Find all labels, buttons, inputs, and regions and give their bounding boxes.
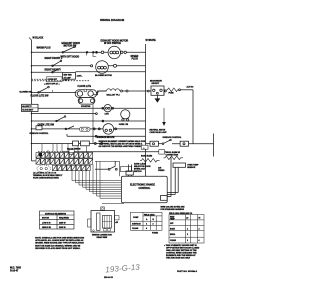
svg-text:2: 2 [199,228,200,230]
lamp surface ind [103,124,114,135]
clock box [22,104,39,111]
svg-text:SURFACE CONTROL: SURFACE CONTROL [30,132,50,135]
svg-text:CASE VALID LGHT: CASE VALID LGHT [150,131,168,134]
svg-text:SECURED IN PLACE AWAY FROM HOT: SECURED IN PLACE AWAY FROM HOT AREAS. [35,247,81,250]
vertical drops right [171,157,178,197]
svg-text:1250 W: 1250 W [59,222,66,224]
terminal block grid [36,153,93,171]
switch S2 [52,65,54,67]
svg-text:2100 W: 2100 W [59,227,66,229]
svg-text:CLEAN: CLEAN [170,239,177,242]
wire row lite [32,107,146,109]
svg-text:BLOWER SW: BLOWER SW [20,92,32,94]
svg-text:W OFF SWITCH: W OFF SWITCH [104,43,121,45]
svg-text:SURFACE ELEMENT CURRENT RATING: SURFACE ELEMENT CURRENT RATING VALID FOR [99,140,146,143]
harness ribbon [72,161,124,203]
junction dot [96,51,98,53]
svg-text:OVEN LTE: OVEN LTE [119,124,129,126]
svg-text:REAR VIEW: REAR VIEW [97,236,108,239]
svg-text:+D47+: +D47+ [77,75,84,78]
svg-text:MIN TMR: MIN TMR [64,75,73,77]
svg-text:WARM PLUS: WARM PLUS [37,47,52,50]
svg-text:HIGH 8 IN: HIGH 8 IN [42,227,51,229]
svg-text:PLUG CONN SURFACE UNITS: PLUG CONN SURFACE UNITS [33,177,60,180]
ground [156,95,158,99]
svg-text:FIELD LEAD: FIELD LEAD [144,213,155,216]
svg-text:RECEPT: RECEPT [152,83,161,85]
wire vertical feeder [92,104,94,143]
svg-text:WITH OFT HOOD: WITH OFT HOOD [61,56,80,58]
svg-text:SURFACE ELEMENTS: SURFACE ELEMENTS [45,212,67,215]
wire dashed row oven interlock [32,78,47,80]
svg-text:R-10-47: R-10-47 [10,269,19,272]
wire to neutral [104,51,146,53]
tiny labels under grid [33,172,63,180]
wire row oven lite [32,120,146,122]
svg-text:1: 1 [187,228,188,230]
wire jog up to receptacle level [94,91,107,95]
plug oval [37,165,51,172]
svg-text:REQUIRED: REQUIRED [59,218,70,220]
wire neutral row [67,134,146,136]
svg-text:FUSE: FUSE [169,93,175,95]
door interlock switch [95,168,108,170]
ballast coil [107,89,120,91]
svg-text:EXHAUST HOOD: EXHAUST HOOD [62,42,81,45]
svg-text:CONTROL: CONTROL [139,187,151,190]
timer box [63,73,76,80]
svg-text:NOTE: SYMBOLS ARE FOR USE WHEN: NOTE: SYMBOLS ARE FOR USE WHEN SERVICING [35,237,84,240]
drops to terminal block [42,144,87,163]
partial wire row [32,113,96,115]
svg-text:MOTOR: MOTOR [42,218,50,220]
left table surface elements [40,211,75,229]
svg-text:1: 1 [146,224,147,226]
right edge stub [213,134,215,157]
svg-text:SHOWN. WIRE GAUGE AND TYPE OF: SHOWN. WIRE GAUGE AND TYPE OF INSULATION [35,242,84,245]
svg-text:W BLACK: W BLACK [33,37,44,40]
lamp LITE [104,105,111,112]
svg-text:SWITCH: SWITCH [134,171,142,173]
svg-text:SURFACE: SURFACE [132,223,141,226]
bus R (white neutral bus) [145,44,147,176]
svg-text:MAX TOTAL WATTS AND NO OF UNIT: MAX TOTAL WATTS AND NO OF UNITS WHEN A [99,143,143,146]
svg-text:W WHITE: W WHITE [146,40,157,42]
svg-text:FLOUR LITE: FLOUR LITE [78,86,92,88]
svg-text:2: 2 [153,224,154,226]
svg-text:ALT NO: ALT NO [187,86,194,89]
svg-text:PART NO. 307484-1: PART NO. 307484-1 [177,270,198,273]
svg-text:FLOUR LITE SW: FLOUR LITE SW [31,95,50,97]
control box U1 electronic range control [121,176,167,203]
svg-text:PRESS: PRESS [158,170,165,172]
starter [78,98,95,105]
wire row surface ind [32,128,146,130]
wire row1 [32,51,97,53]
lamp oven lite (between rows) [121,110,130,119]
corner marks [10,268,198,279]
svg-text:OFF: OFF [170,223,173,225]
svg-text:WIRING DIAGRAM: WIRING DIAGRAM [100,18,125,22]
svg-text:LOW 6 IN: LOW 6 IN [42,222,51,224]
svg-text:LITE: LITE [105,114,110,116]
svg-text:FOR STANDARD HARNESS: FOR STANDARD HARNESS [161,208,185,211]
svg-text:BROIL: BROIL [170,234,175,236]
svg-text:MUST BE SAME AS ORIGINAL WIRIN: MUST BE SAME AS ORIGINAL WIRING AND BE [35,244,81,247]
surface element E2 [91,65,93,67]
bus R2 [192,90,194,144]
right note [164,244,200,260]
svg-text:+ SHUT OFF AT +: + SHUT OFF AT + [44,82,60,85]
svg-text:APPLIANCE. ALL LEADS MUST BE R: APPLIANCE. ALL LEADS MUST BE REPLACED AS [35,239,84,242]
wire to box top [95,161,120,176]
connector dark key [39,153,42,156]
svg-text:SURFACE CONTROL: SURFACE CONTROL [163,136,183,139]
wire [97,51,101,53]
connector block rear view [91,211,115,233]
svg-text:THE JUNCTION BOX ONLY: THE JUNCTION BOX ONLY [166,258,191,260]
fuse link row [164,90,166,96]
svg-text:BLOWER MOTOR: BLOWER MOTOR [95,75,112,77]
svg-text:ALLOW 7V: ALLOW 7V [22,105,32,108]
svg-text:BAKE ELEM: BAKE ELEM [141,154,153,157]
note paragraph [35,237,84,250]
svg-text:BALLAST 7F-1: BALLAST 7F-1 [107,94,120,97]
svg-text:4: 4 [146,227,147,230]
svg-text:W.O. 7935: W.O. 7935 [10,268,22,270]
svg-text:RIGHT FRONT +: RIGHT FRONT + [45,58,63,60]
svg-text:COMP: COMP [133,217,139,219]
svg-text:FUSED: FUSED [152,233,159,235]
svg-text:CLOCK MOT: CLOCK MOT [22,110,34,112]
svg-text:CLEAN: CLEAN [132,227,139,230]
svg-text:PLUG: PLUG [132,58,139,60]
svg-text:4: 4 [199,239,200,242]
svg-text:SENSOR: SENSOR [187,167,196,169]
svg-text:STARTER: STARTER [81,105,91,108]
middle table [131,212,163,230]
wire jog to ballast [97,91,107,92]
surface row with box [32,143,109,145]
svg-text:2: 2 [187,234,188,236]
svg-text:AS ONE FOR THE ENTIRE A MIXTUR: AS ONE FOR THE ENTIRE A MIXTURE CONNECTE… [99,145,146,148]
bus L (black supply bus) [32,40,36,161]
svg-text:3: 3 [187,240,188,242]
svg-text:193-G-13: 193-G-13 [104,277,114,279]
